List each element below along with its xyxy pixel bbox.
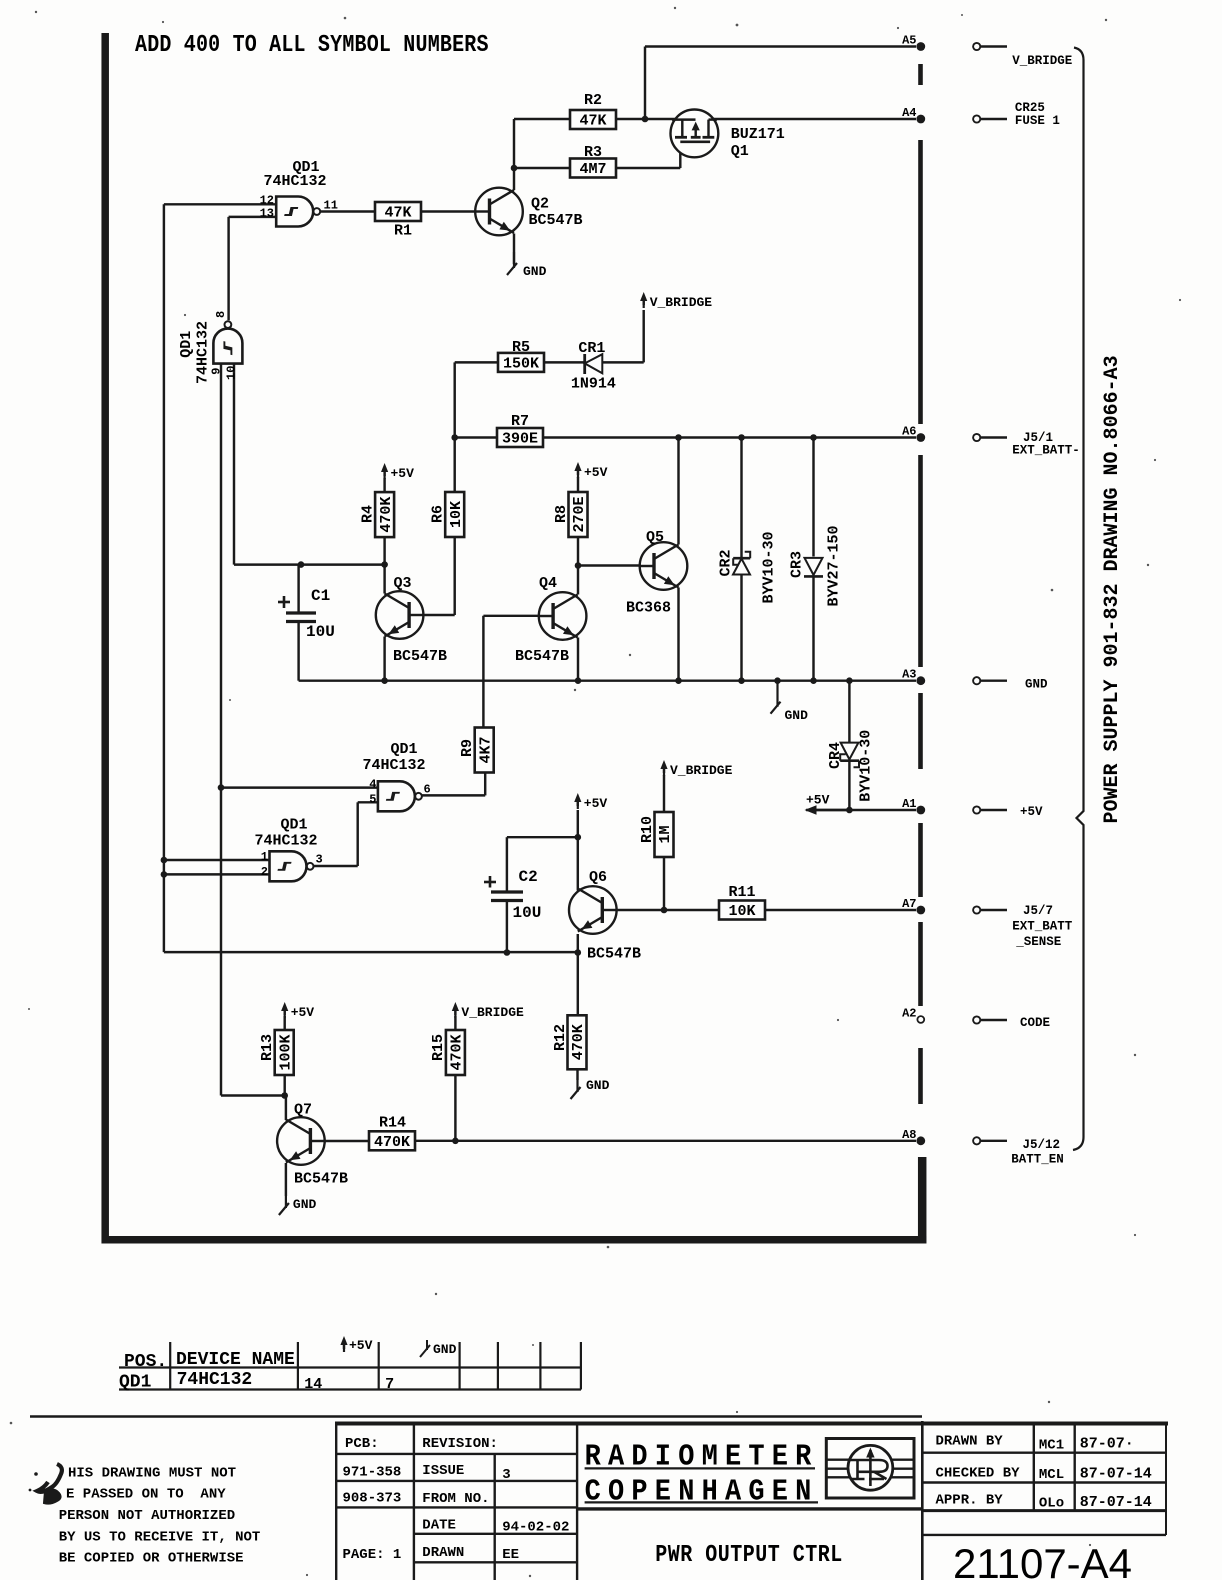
svg-text:+5V: +5V — [584, 796, 608, 811]
svg-text:REVISION:: REVISION: — [422, 1436, 498, 1452]
edge terminal A7 — [902, 897, 925, 914]
junction A3/Q5 emitter — [675, 677, 682, 684]
svg-text:R2: R2 — [584, 92, 602, 109]
svg-text:A7: A7 — [902, 897, 916, 911]
svg-text:QD1: QD1 — [119, 1373, 152, 1393]
svg-text:74HC132: 74HC132 — [362, 757, 425, 774]
svg-text:+5V: +5V — [806, 793, 830, 808]
svg-text:BC368: BC368 — [626, 600, 671, 617]
junction pin2 tap — [161, 871, 168, 878]
svg-text:R14: R14 — [379, 1115, 406, 1132]
pin J5/12 BATT_EN — [973, 1137, 1064, 1166]
svg-text:QD1: QD1 — [178, 331, 195, 358]
resistor R11 10K — [719, 884, 765, 920]
junction R7/Q5 collector — [675, 434, 682, 441]
svg-text:BY US TO RECEIVE IT, NOT: BY US TO RECEIVE IT, NOT — [59, 1530, 261, 1546]
svg-text:74HC132: 74HC132 — [254, 833, 317, 850]
svg-text:E PASSED ON TO ANY: E PASSED ON TO ANY — [66, 1487, 226, 1503]
svg-text:74HC132: 74HC132 — [177, 1370, 253, 1390]
svg-text:47K: 47K — [384, 205, 411, 222]
svg-text:11: 11 — [324, 199, 338, 213]
svg-text:6: 6 — [424, 783, 431, 797]
wire Q3 collector lead — [383, 565, 385, 594]
svg-text:BE COPIED OR OTHERWISE: BE COPIED OR OTHERWISE — [59, 1551, 244, 1567]
diode CR4 BYV10-30 (schottky) — [827, 730, 875, 802]
junction CR4 / +5V — [846, 807, 853, 814]
wire R8 leads — [577, 477, 579, 566]
power +5V arrow at A1 — [805, 793, 850, 815]
junction A3/CR4 — [846, 677, 853, 684]
wire R6 lower to Q3 base — [423, 537, 454, 615]
svg-text:BC547B: BC547B — [393, 648, 447, 665]
svg-text:J5/12: J5/12 — [1023, 1138, 1061, 1152]
junction pin1 tap — [161, 857, 168, 864]
transistor Q4 BC547B — [515, 575, 586, 665]
svg-text:A4: A4 — [902, 106, 916, 120]
resistor R7 390E — [497, 413, 543, 448]
note: add 400 to symbol numbers — [135, 30, 489, 58]
power +5V at R13 — [281, 1002, 314, 1020]
wire C1 top node to R4 — [301, 563, 385, 565]
resistor R12 470K — [552, 1015, 587, 1069]
wire R3 left — [514, 167, 570, 169]
svg-text:10U: 10U — [306, 623, 335, 641]
wire Q7 collector lead — [285, 1096, 287, 1121]
svg-text:C2: C2 — [519, 868, 538, 886]
wire +5V A1 run — [806, 809, 916, 811]
svg-text:_SENSE: _SENSE — [1015, 935, 1061, 949]
svg-text:FUSE 1: FUSE 1 — [1015, 114, 1060, 128]
svg-text:POWER SUPPLY 901-832 DRAWING: POWER SUPPLY 901-832 DRAWING NO.8066-A3 — [1101, 355, 1124, 823]
wire A5 net (V_BRIDGE to edge) — [645, 47, 916, 120]
wire gate2 pin2 — [164, 873, 270, 875]
svg-text:R9: R9 — [459, 739, 476, 757]
svg-text:R5: R5 — [512, 339, 530, 356]
title block grid — [30, 1417, 1168, 1580]
power +5V at Q6 — [574, 793, 607, 811]
pin J5/1 EXT_BATT- — [973, 431, 1080, 458]
junction R7/CR3 — [810, 434, 817, 441]
resistor R10 1M — [639, 812, 674, 857]
junction A3/CR2 — [738, 677, 745, 684]
svg-text:1: 1 — [261, 850, 268, 864]
svg-text:BUZ171: BUZ171 — [731, 126, 785, 143]
logo text RADIOMETER COPENHAGEN — [585, 1439, 819, 1509]
svg-text:A8: A8 — [902, 1128, 916, 1142]
edge terminal A6 — [902, 425, 925, 442]
svg-text:PAGE: 1: PAGE: 1 — [343, 1547, 402, 1563]
svg-text:1N914: 1N914 — [571, 376, 616, 393]
junction R10 / base wire — [661, 907, 668, 914]
wire GND/A3 bus — [299, 679, 916, 681]
edge terminal A1 — [902, 797, 925, 814]
svg-text:BYV27-150: BYV27-150 — [826, 525, 843, 606]
wire emitter return run — [164, 951, 578, 953]
svg-text:R7: R7 — [511, 413, 529, 430]
svg-text:21107-A4: 21107-A4 — [953, 1540, 1132, 1580]
resistor R8 270E — [553, 492, 588, 537]
brace (right) — [1073, 48, 1084, 1151]
svg-text:R8: R8 — [553, 505, 570, 523]
capacitor C2 10U — [484, 868, 541, 922]
diode CR2 BYV10-30 (schottky) — [718, 531, 778, 603]
svg-text:BC547B: BC547B — [515, 648, 569, 665]
power V_BRIDGE at R10 — [660, 760, 732, 778]
svg-text:R13: R13 — [259, 1034, 276, 1061]
junction A3/GND stub — [774, 677, 781, 684]
svg-text:12: 12 — [260, 194, 274, 208]
border frame — [102, 33, 927, 1244]
wire R1 to Q2 base — [420, 210, 475, 212]
svg-text:POS.: POS. — [124, 1352, 167, 1372]
logo Radiometer emblem — [826, 1439, 914, 1499]
wire C2 bottom lead — [506, 902, 508, 955]
junction R2/A5 riser — [642, 116, 649, 123]
svg-text:A5: A5 — [902, 34, 916, 48]
resistor R4 470K — [360, 492, 395, 537]
svg-text:R15: R15 — [430, 1034, 447, 1061]
device table — [119, 1336, 581, 1393]
resistor R1 47K — [375, 202, 421, 240]
pin V_BRIDGE — [973, 43, 1072, 68]
svg-text:Q5: Q5 — [646, 529, 664, 546]
wire gate2 pin1 — [164, 859, 270, 861]
svg-text:EXT_BATT-: EXT_BATT- — [1012, 444, 1080, 458]
svg-text:+5V: +5V — [1020, 805, 1043, 819]
svg-text:9: 9 — [210, 368, 224, 375]
svg-text:CR25: CR25 — [1015, 101, 1045, 115]
svg-text:R6: R6 — [430, 505, 447, 523]
svg-text:DATE: DATE — [422, 1518, 456, 1534]
wire pin13 from gateB out — [229, 217, 277, 320]
svg-text:ISSUE: ISSUE — [422, 1463, 464, 1479]
svg-text:+5V: +5V — [391, 466, 415, 481]
svg-text:94-02-02: 94-02-02 — [502, 1520, 569, 1536]
svg-text:470K: 470K — [374, 1134, 410, 1151]
wire R6 upper lead — [453, 438, 455, 493]
svg-text:GND: GND — [293, 1197, 317, 1212]
wire C1 verticals — [297, 565, 299, 681]
svg-text:+5V: +5V — [349, 1338, 373, 1353]
transistor Q2 BC547B — [475, 188, 582, 236]
svg-text:PERSON NOT AUTHORIZED: PERSON NOT AUTHORIZED — [59, 1508, 235, 1524]
resistor R14 470K — [369, 1115, 415, 1152]
svg-text:ADD 400 TO ALL SYMBOL NUMBERS: ADD 400 TO ALL SYMBOL NUMBERS — [135, 30, 489, 58]
junction Q6 collector / C2 — [575, 834, 582, 841]
svg-text:150K: 150K — [503, 356, 539, 373]
svg-text:QD1: QD1 — [390, 741, 417, 758]
wire R12 lower lead — [576, 1070, 578, 1081]
svg-text:Q2: Q2 — [531, 196, 549, 213]
resistor R5 150K — [498, 339, 544, 373]
svg-text:EE: EE — [502, 1547, 519, 1563]
svg-text:R11: R11 — [728, 884, 755, 901]
svg-text:HIS DRAWING MUST NOT: HIS DRAWING MUST NOT — [68, 1466, 236, 1482]
svg-text:Q6: Q6 — [589, 869, 607, 886]
svg-text:A6: A6 — [902, 425, 916, 439]
edge connector boundary (dashed) — [918, 64, 923, 1104]
svg-text:4M7: 4M7 — [579, 161, 606, 178]
svg-text:BYV10-30: BYV10-30 — [761, 531, 778, 603]
svg-text:270E: 270E — [571, 496, 588, 532]
svg-text:470K: 470K — [570, 1024, 587, 1060]
ground at R12 — [571, 1078, 610, 1099]
wire CR3 leads — [812, 438, 814, 681]
svg-text:Q3: Q3 — [394, 575, 412, 592]
side title POWER SUPPLY 901-832 DRAWING NO.8066-A3 — [1101, 355, 1124, 823]
wire R11 to A7 — [764, 909, 916, 911]
svg-text:Q4: Q4 — [539, 575, 557, 592]
svg-text:CR1: CR1 — [578, 340, 605, 357]
svg-text:BC547B: BC547B — [294, 1171, 348, 1188]
svg-text:CR4: CR4 — [827, 742, 844, 769]
svg-text:V_BRIDGE: V_BRIDGE — [461, 1005, 524, 1020]
junction R4 / Q3 collector — [381, 561, 388, 568]
wire gate3 out to R9 — [421, 772, 485, 795]
edge terminal A5 — [902, 34, 925, 51]
wire Q7 base — [325, 1140, 370, 1142]
wire Q7 emitter lead — [285, 1163, 287, 1196]
wire gate1 out to R1 — [321, 210, 376, 212]
svg-text:4K7: 4K7 — [477, 736, 494, 763]
junction Q5 base / R8 — [575, 562, 582, 569]
svg-text:908-373: 908-373 — [343, 1491, 402, 1507]
svg-text:CR3: CR3 — [789, 551, 806, 578]
svg-text:1M: 1M — [657, 825, 674, 843]
svg-text:FROM NO.: FROM NO. — [422, 1491, 489, 1507]
svg-text:8: 8 — [214, 311, 228, 318]
svg-text:971-358: 971-358 — [343, 1465, 402, 1481]
svg-text:APPR. BY: APPR. BY — [936, 1493, 1004, 1509]
capacitor C1 10U — [278, 587, 335, 641]
svg-text:A3: A3 — [902, 668, 916, 682]
wire Q5 emitter lead — [677, 588, 679, 681]
svg-text:C1: C1 — [311, 587, 330, 605]
svg-text:BYV10-30: BYV10-30 — [858, 730, 875, 802]
junction A3/Q3 emitter — [381, 677, 388, 684]
edge terminal A8 — [902, 1128, 925, 1145]
svg-text:R4: R4 — [360, 505, 377, 523]
wire C2 top branch — [507, 837, 578, 890]
wire Q4 base / R9 riser — [483, 616, 538, 728]
edge terminal A3 — [902, 668, 925, 685]
resistor R6 10K — [430, 492, 465, 537]
svg-text:2: 2 — [261, 865, 268, 879]
svg-text:GND: GND — [433, 1342, 457, 1357]
nand gate U1 pins 1/2/3 (74HC132) — [254, 817, 322, 882]
wire Q2 emitter — [513, 234, 515, 265]
svg-text:BC547B: BC547B — [587, 946, 641, 963]
svg-text:EXT_BATT: EXT_BATT — [1012, 920, 1073, 934]
ground stub on A3 bus — [771, 681, 809, 723]
nand gate U1 pins 4/5/6 (74HC132) — [362, 741, 430, 811]
junction R7/CR2 — [738, 434, 745, 441]
wire CR4 leads — [848, 681, 850, 811]
wire R7 to A6 — [543, 436, 916, 438]
svg-text:R10: R10 — [639, 816, 656, 843]
svg-text:PWR OUTPUT CTRL: PWR OUTPUT CTRL — [655, 1541, 842, 1568]
pin J5/7 EXT_BATT_SENSE — [973, 904, 1073, 949]
wire Q5 base — [578, 564, 640, 566]
smudge marks — [29, 1464, 62, 1504]
svg-text:A2: A2 — [902, 1007, 916, 1021]
svg-text:OLo: OLo — [1039, 1496, 1064, 1512]
pin CR25 FUSE 1 — [973, 101, 1060, 128]
transistor Q7 BC547B — [277, 1102, 348, 1188]
wire R4 body leads — [383, 478, 385, 565]
resistor R15 470K — [430, 1030, 466, 1075]
wire Q4 collector lead — [577, 566, 579, 595]
svg-text:V_BRIDGE: V_BRIDGE — [650, 295, 713, 310]
svg-text:+5V: +5V — [291, 1005, 315, 1020]
pin GND — [973, 677, 1048, 691]
wire Q6 base — [617, 909, 720, 911]
svg-text:R12: R12 — [552, 1024, 569, 1051]
junction C1 top — [298, 561, 305, 568]
svg-text:7: 7 — [385, 1376, 394, 1393]
svg-text:GND: GND — [586, 1078, 610, 1093]
svg-text:5: 5 — [369, 792, 376, 806]
svg-text:CR2: CR2 — [718, 549, 735, 576]
resistor R9 4K7 — [459, 728, 494, 773]
svg-text:10: 10 — [224, 366, 238, 380]
svg-text:DRAWN BY: DRAWN BY — [936, 1434, 1004, 1450]
svg-text:3: 3 — [502, 1467, 510, 1483]
svg-text:PCB:: PCB: — [345, 1436, 379, 1452]
edge terminal A4 — [902, 106, 925, 123]
pin CODE — [973, 1016, 1050, 1030]
transistor Q3 BC547B — [376, 575, 447, 665]
wire Q6 collector lead — [577, 810, 579, 891]
junction A3/Q4 emitter — [575, 677, 582, 684]
wire pin12 riser — [164, 204, 276, 952]
wire gateB pin10 to C1 node — [234, 364, 301, 565]
svg-text:V_BRIDGE: V_BRIDGE — [670, 763, 733, 778]
svg-text:100K: 100K — [277, 1034, 294, 1070]
transistor Q6 BC547B — [569, 869, 641, 963]
svg-text:BC547B: BC547B — [529, 212, 583, 229]
ground at Q7 — [279, 1196, 317, 1215]
svg-text:390E: 390E — [502, 431, 538, 448]
junction R15 / A8 wire — [452, 1138, 459, 1145]
wire CR1 to V_BRIDGE riser — [543, 361, 585, 363]
drawing number 21107-A4 — [953, 1540, 1132, 1580]
svg-text:MCL: MCL — [1039, 1467, 1064, 1483]
nand gate U1 pins 12/13/11 (74HC132) — [260, 159, 338, 227]
svg-text:R3: R3 — [584, 144, 602, 161]
legal note (bottom left) — [59, 1466, 261, 1567]
wire R10 leads — [663, 775, 665, 910]
svg-text:4: 4 — [369, 777, 376, 791]
svg-text:10K: 10K — [728, 903, 755, 920]
svg-text:QD1: QD1 — [280, 817, 307, 834]
junction R5/R7/R6 — [451, 434, 458, 441]
junction R13 / Q7 collector — [281, 1092, 288, 1099]
svg-text:87-07-14: 87-07-14 — [1080, 1494, 1152, 1511]
wire R5 left leg — [455, 362, 499, 437]
wire R7 left — [455, 436, 497, 438]
svg-text:13: 13 — [260, 207, 274, 221]
svg-text:+5V: +5V — [584, 465, 608, 480]
title block texts (right) — [936, 1434, 1152, 1512]
junction C2 / return — [504, 949, 511, 956]
transistor Q5 BC368 — [626, 529, 687, 617]
junction Q2 collector / R3 — [511, 165, 518, 172]
edge terminal A2 — [902, 1007, 924, 1023]
svg-text:470K: 470K — [449, 1034, 466, 1070]
junction pin9 run / gate3 pin4 — [218, 784, 225, 791]
svg-text:V_BRIDGE: V_BRIDGE — [1012, 54, 1072, 68]
svg-text:GND: GND — [523, 264, 547, 279]
svg-text:Q1: Q1 — [731, 143, 749, 160]
resistor R3 4M7 — [570, 144, 616, 178]
resistor R13 100K — [259, 1030, 294, 1075]
power V_BRIDGE at CR1 — [640, 292, 712, 310]
svg-text:J5/7: J5/7 — [1023, 904, 1053, 918]
svg-text:BATT_EN: BATT_EN — [1011, 1153, 1064, 1167]
svg-text:3: 3 — [316, 853, 323, 867]
resistor R2 47K — [570, 92, 616, 130]
svg-text:DEVICE NAME: DEVICE NAME — [176, 1350, 295, 1370]
svg-text:10K: 10K — [448, 501, 465, 528]
wire R2 to Q1 drain / A4 — [616, 118, 916, 120]
svg-text:A1: A1 — [902, 797, 916, 811]
svg-text:87-07-14: 87-07-14 — [1080, 1466, 1152, 1483]
svg-text:GND: GND — [1025, 678, 1048, 692]
wire R3 to Q1 gate — [616, 143, 680, 169]
svg-text:R1: R1 — [394, 223, 412, 240]
wire gate pin9 to Q7 — [221, 1094, 285, 1096]
wire R13 leads — [283, 1016, 285, 1096]
nand gate U1 pins 9/10/8 (74HC132, vertical) — [178, 311, 242, 384]
diode CR3 BYV27-150 — [789, 525, 843, 606]
wire R15 leads — [454, 1016, 456, 1141]
svg-text:47K: 47K — [579, 113, 606, 130]
ground at Q2 — [507, 252, 547, 279]
title block texts (left) — [343, 1436, 570, 1563]
svg-text:CHECKED BY: CHECKED BY — [936, 1466, 1021, 1482]
wire Q2 collector to R2/R3 — [514, 119, 570, 190]
svg-text:COPENHAGEN: COPENHAGEN — [585, 1474, 819, 1509]
svg-text:Q7: Q7 — [294, 1102, 312, 1119]
wire CR1 out — [602, 310, 643, 362]
diode CR1 1N914 — [571, 340, 616, 393]
wire Q4 emitter lead — [577, 638, 579, 681]
transistor Q1 BUZ171 (mosfet) — [671, 109, 785, 160]
power +5V at R4 — [381, 463, 414, 481]
svg-text:10U: 10U — [513, 904, 542, 922]
svg-text:470K: 470K — [378, 497, 395, 533]
svg-text:14: 14 — [304, 1376, 322, 1393]
svg-text:87-07·: 87-07· — [1080, 1436, 1134, 1453]
wire CR2 leads — [740, 438, 742, 681]
wire gate3 pin5 from gate2 out — [314, 802, 378, 866]
junction A3/CR3 — [810, 677, 817, 684]
pin +5V — [973, 805, 1043, 819]
wire Q6 emitter to R12 — [577, 934, 579, 1015]
svg-text:DRAWN: DRAWN — [422, 1545, 464, 1561]
junction Q6 emitter / return — [575, 949, 582, 956]
svg-text:GND: GND — [785, 708, 809, 723]
title PWR OUTPUT CTRL — [655, 1541, 842, 1568]
power V_BRIDGE at R15 — [452, 1002, 524, 1020]
wire Q5 collector lead — [677, 438, 679, 545]
svg-text:74HC132: 74HC132 — [263, 173, 326, 190]
wire gate3 pin4 — [221, 786, 378, 788]
wire R14 to A8 — [414, 1140, 916, 1142]
power +5V at R8 — [574, 462, 607, 480]
wire gateB pin9 down-run — [220, 364, 222, 1096]
